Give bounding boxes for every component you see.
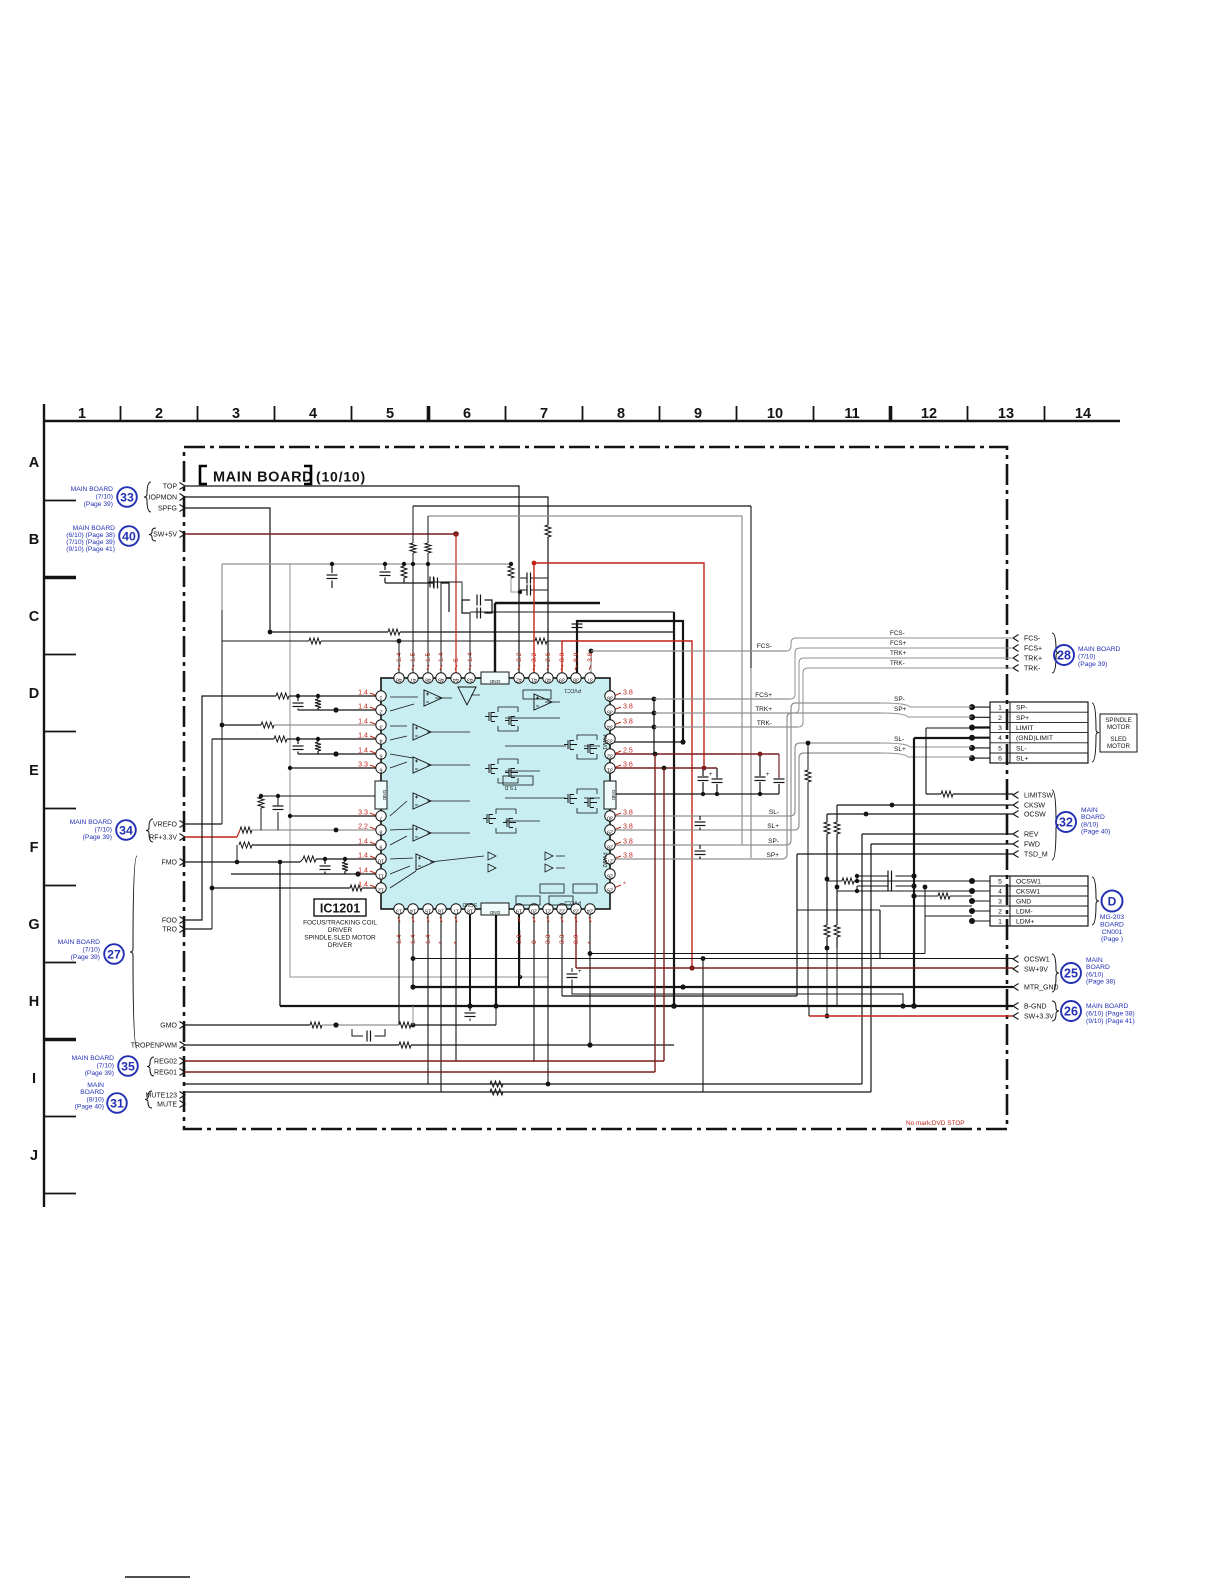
junction pin21/MUTE123 (546, 1082, 551, 1087)
thick gnd limit wire (914, 737, 972, 739)
svg-text:3.8: 3.8 (587, 652, 594, 662)
svg-text:25: 25 (1064, 967, 1078, 981)
node TSD_M (1013, 851, 1019, 858)
LDM+ row wire (925, 915, 972, 917)
IC1201 reference label (314, 899, 366, 916)
group brace for 27 (130, 856, 137, 1048)
svg-text:B-GND: B-GND (1024, 1004, 1047, 1011)
svg-text:40: 40 (122, 529, 136, 543)
svg-text:MAIN: MAIN (1081, 807, 1098, 814)
svg-text:MAIN BOARD: MAIN BOARD (1078, 646, 1121, 653)
wire (400, 631, 674, 633)
svg-text:(9/10) (Page 41): (9/10) (Page 41) (1086, 1018, 1135, 1025)
svg-text:3: 3 (380, 724, 383, 730)
vertical x703 lower (702, 959, 704, 1093)
svg-text:15: 15 (425, 908, 431, 914)
node MTR_GND (1013, 984, 1019, 991)
long bus y506 (413, 505, 751, 507)
svg-text:3.8: 3.8 (623, 689, 633, 697)
svg-text:1.4: 1.4 (396, 652, 403, 662)
svg-text:MTR_GND: MTR_GND (1024, 985, 1059, 992)
svg-text:(9/10) (Page 41): (9/10) (Page 41) (66, 546, 115, 553)
wire (270, 631, 388, 633)
TSD vertical x797 (796, 854, 798, 996)
FWD wire (871, 843, 1013, 845)
svg-text:FMO: FMO (161, 860, 177, 867)
resistor y641 left (309, 638, 321, 644)
node B-GND (1013, 1003, 1019, 1010)
svg-text:21: 21 (545, 908, 551, 914)
svg-text:BOARD: BOARD (1100, 921, 1124, 928)
svg-text:34: 34 (119, 823, 133, 837)
left ruler line (43, 421, 45, 1207)
gnd box bottom drop thick (495, 915, 497, 1006)
svg-text:48: 48 (396, 677, 402, 683)
MG rows wires (856, 876, 858, 881)
svg-text:BOARD: BOARD (80, 1089, 104, 1096)
IC right GND box (604, 781, 616, 809)
ref circle 27 (104, 944, 124, 964)
pin20 drop (533, 914, 535, 1062)
wire IOPMON to pin40 (185, 497, 548, 525)
pin4/5 rc cluster (297, 739, 299, 744)
resistor pin9 (239, 842, 252, 848)
vertical x655 (654, 754, 656, 1072)
svg-text:40: 40 (545, 677, 551, 683)
pin34 wire (610, 726, 654, 728)
svg-text:3.2: 3.2 (531, 652, 538, 662)
red bus pin39 (y641) (562, 641, 692, 968)
IC top GND box (481, 672, 509, 684)
long gray bus y515 (428, 516, 742, 845)
svg-text:*: * (587, 941, 594, 944)
svg-text:SP-: SP- (1016, 705, 1027, 712)
pin22 drop (561, 914, 563, 996)
svg-text:SP+: SP+ (1016, 715, 1029, 722)
svg-text:3: 3 (998, 725, 1002, 732)
svg-text:14: 14 (1075, 406, 1091, 422)
svg-text:SL+: SL+ (1016, 756, 1028, 763)
node OCSW (1013, 811, 1019, 818)
CKSW column to B-GND (836, 948, 838, 1006)
svg-text:11: 11 (844, 406, 859, 422)
svg-text:2: 2 (380, 709, 383, 715)
svg-text:TSD_M: TSD_M (1024, 852, 1048, 859)
gray FCS- run (591, 650, 786, 652)
svg-text:GND: GND (1016, 898, 1031, 905)
svg-text:8.9: 8.9 (573, 652, 580, 662)
svg-text:FCS-: FCS- (890, 630, 905, 637)
maroon pin32 run (610, 753, 779, 755)
transistor pair (568, 740, 577, 750)
svg-text:(8/10): (8/10) (1081, 821, 1098, 828)
svg-text:DRIVER: DRIVER (328, 942, 353, 949)
resistor on SPFG line (388, 629, 400, 635)
svg-text:(6/10) (Page 38): (6/10) (Page 38) (66, 532, 115, 539)
svg-text:1.5: 1.5 (410, 652, 417, 662)
link FMO to pin9 row (236, 845, 238, 862)
svg-text:1.4: 1.4 (358, 732, 368, 740)
svg-text:1.5: 1.5 (425, 652, 432, 662)
node FCS+ (1013, 645, 1019, 652)
MG GND row wire (914, 895, 938, 897)
svg-text:13: 13 (396, 908, 402, 914)
pin13 drop to GMO (398, 914, 400, 1025)
node CKSW (1013, 802, 1019, 809)
thick vertical x914 (913, 738, 915, 1006)
connector MG-203 CN001 table (990, 876, 1088, 926)
wire gray (274, 724, 376, 726)
svg-text:(8/10): (8/10) (87, 1096, 104, 1103)
TROPENPWM wire (185, 1044, 399, 1046)
svg-text:35: 35 (121, 1059, 135, 1073)
cap pair drop (491, 603, 493, 613)
OCSW column to SW+3.3V (826, 948, 828, 1016)
svg-text:LDM-: LDM- (1016, 908, 1033, 915)
FWD vertical x871 (870, 844, 872, 1092)
svg-text:SPINDLE: SPINDLE (1105, 717, 1131, 724)
resistor on x808 (805, 770, 811, 782)
gnd rail from IC right gnd box (616, 793, 779, 795)
svg-text:(7/10): (7/10) (1078, 653, 1095, 660)
svg-text:29: 29 (607, 829, 613, 835)
wire pin38 thick (576, 631, 578, 673)
svg-text:BOARD: BOARD (1081, 814, 1105, 821)
svg-text:C: C (29, 609, 40, 625)
pin36 wire (610, 698, 654, 700)
wire TOP to pin42 (185, 486, 519, 673)
pin21 drop (547, 914, 549, 1084)
IC bottom pins 19-24 (514, 904, 524, 914)
svg-text:GND: GND (610, 790, 616, 801)
IC left GND box (375, 781, 387, 809)
svg-text:FCS-: FCS- (1024, 636, 1041, 643)
ref circle 25 (1061, 963, 1081, 983)
svg-text:TRK-: TRK- (1024, 666, 1041, 673)
column x808 upper (807, 743, 809, 770)
svg-text:MAIN: MAIN (1086, 957, 1103, 964)
svg-text:31: 31 (607, 767, 613, 773)
svg-text:E: E (29, 763, 39, 779)
svg-text:3.8: 3.8 (623, 823, 633, 831)
ref circle 32 (1056, 812, 1076, 832)
MG rows to caps (827, 880, 842, 882)
svg-text:5: 5 (380, 753, 383, 759)
wire SW+5V to pin44 (455, 534, 457, 673)
svg-text:19: 19 (516, 908, 522, 914)
svg-text:3.8: 3.8 (623, 718, 633, 726)
FMO run (185, 861, 237, 863)
column x808 lower (807, 782, 809, 1006)
node TRK- (1013, 665, 1019, 672)
svg-text:TRK-: TRK- (757, 720, 772, 727)
svg-text:3.3: 3.3 (358, 761, 368, 769)
svg-text:1.4: 1.4 (358, 838, 368, 846)
svg-text:2.6: 2.6 (545, 652, 552, 662)
svg-text:24: 24 (587, 908, 593, 914)
svg-text:TRO: TRO (162, 927, 177, 934)
svg-text:No mark:DVD STOP: No mark:DVD STOP (906, 1120, 964, 1127)
svg-text:SLED: SLED (1110, 736, 1127, 743)
red bus upper (y563) (534, 563, 704, 770)
svg-text:FWD: FWD (1024, 842, 1040, 849)
svg-text:VREFO: VREFO (153, 822, 178, 829)
svg-text:*: * (453, 941, 460, 944)
svg-text:J: J (30, 1148, 38, 1164)
svg-text:RF+3.3V: RF+3.3V (149, 835, 177, 842)
SL- gray (610, 815, 790, 817)
svg-text:1.4: 1.4 (358, 867, 368, 875)
svg-text:5: 5 (998, 878, 1002, 885)
svg-text:MAIN BOARD: MAIN BOARD (73, 525, 116, 532)
ref circle 28 (1054, 645, 1074, 665)
FCS- gray from pin37 (590, 651, 592, 673)
gray TRK+ (654, 712, 794, 714)
svg-text:G: G (28, 917, 39, 933)
svg-text:MAIN BOARD: MAIN BOARD (70, 819, 113, 826)
svg-text:MUTE: MUTE (157, 1102, 177, 1109)
svg-text:(7/10): (7/10) (97, 1062, 114, 1069)
bus y641 feeding pin48 (221, 564, 223, 641)
svg-text:3.8: 3.8 (623, 809, 633, 817)
svg-text:27: 27 (107, 947, 121, 961)
svg-text:36: 36 (607, 695, 613, 701)
svg-text:SW+3.3V: SW+3.3V (1024, 1014, 1054, 1021)
svg-text:5: 5 (453, 658, 460, 662)
IC left pins 1-6 (376, 691, 386, 701)
pin8 rc to gnd rail (260, 808, 262, 830)
svg-text:37: 37 (587, 677, 593, 683)
svg-text:1.4: 1.4 (410, 934, 417, 944)
svg-text:GND: GND (381, 790, 387, 801)
svg-text:SP-: SP- (894, 696, 905, 703)
transistor pair (568, 794, 577, 804)
svg-text:(7/10): (7/10) (83, 946, 100, 953)
svg-text:TROPENPWM: TROPENPWM (131, 1043, 177, 1050)
svg-text:3.3: 3.3 (516, 934, 523, 944)
svg-text:DRIVER: DRIVER (328, 927, 353, 934)
svg-text:(GND)LIMIT: (GND)LIMIT (1016, 735, 1053, 742)
svg-text:(Page 39): (Page 39) (84, 501, 113, 508)
thick bus y621 to pin33 (577, 621, 683, 742)
svg-text:PVCC1: PVCC1 (564, 687, 581, 693)
transistor pair (489, 764, 498, 774)
svg-text:MAIN: MAIN (87, 1082, 104, 1089)
stub x880 (879, 910, 881, 958)
svg-text:TRK-: TRK- (890, 660, 905, 667)
svg-text:12: 12 (378, 887, 384, 893)
bypass cap on SW+9V (571, 968, 573, 972)
svg-text:PWM2: PWM2 (601, 853, 607, 868)
schematic frame (dash-dot border) (184, 447, 1007, 1129)
pin6 wire (290, 767, 376, 769)
lead (759, 754, 761, 776)
TRO wire (185, 928, 212, 930)
gray FCS+ (654, 698, 790, 700)
gray stub (221, 564, 223, 610)
FOO wire (185, 696, 276, 920)
svg-text:SPINDLE.SLED MOTOR: SPINDLE.SLED MOTOR (304, 935, 376, 942)
pin10 rc (324, 859, 326, 864)
ref circle 34 (116, 820, 136, 840)
wire (385, 582, 434, 584)
lead (778, 754, 780, 778)
TSD_M wire (797, 853, 1013, 855)
gray enclosure around IC (left/bottom) (290, 564, 548, 977)
svg-text:11: 11 (378, 873, 384, 879)
svg-text:16: 16 (438, 908, 444, 914)
svg-text:LDM+: LDM+ (1016, 918, 1034, 925)
svg-text:MAIN BOARD: MAIN BOARD (1086, 1003, 1129, 1010)
svg-text:1.4: 1.4 (358, 703, 368, 711)
svg-text:6: 6 (463, 406, 471, 422)
MTR_GND wire (413, 986, 1013, 988)
SL+ gray (610, 829, 794, 831)
gray TRK- (654, 726, 798, 728)
svg-text:(6/10): (6/10) (1086, 971, 1103, 978)
svg-text:43: 43 (467, 677, 473, 683)
IC internal op-amps (424, 690, 442, 706)
svg-text:D: D (29, 686, 39, 702)
svg-text:MAIN BOARD: MAIN BOARD (71, 486, 114, 493)
svg-text:28: 28 (1057, 649, 1071, 663)
svg-text:H: H (29, 994, 39, 1010)
gray to pin8 (252, 829, 376, 831)
svg-text:(7/10): (7/10) (95, 826, 112, 833)
IC right pins 30-25 (605, 811, 615, 821)
ref circle 35 (118, 1056, 138, 1076)
svg-text:1.4: 1.4 (425, 934, 432, 944)
svg-text:2.5: 2.5 (623, 747, 633, 755)
junction SW+5V (453, 531, 459, 537)
svg-text:(Page ): (Page ) (1101, 936, 1123, 943)
svg-text:PWM1: PWM1 (601, 735, 607, 750)
svg-text:REG01: REG01 (154, 1070, 177, 1077)
left ruler ticks (44, 500, 76, 502)
pin12 wire (212, 887, 350, 889)
top ruler ticks (120, 406, 122, 421)
wire (222, 724, 261, 726)
node FCS- (to 28) (1013, 635, 1019, 642)
svg-text:1.4: 1.4 (467, 652, 474, 662)
black vertical x654 (653, 699, 655, 754)
svg-text:33: 33 (120, 490, 134, 504)
svg-text:FCS+: FCS+ (890, 640, 907, 647)
svg-text:OCSW: OCSW (1024, 812, 1046, 819)
svg-text:3.3: 3.3 (559, 934, 566, 944)
pin1/2 rc cluster (297, 696, 299, 701)
limit drop (925, 728, 927, 794)
svg-text:(Page 40): (Page 40) (1081, 829, 1110, 836)
svg-text:3.8: 3.8 (623, 703, 633, 711)
connector pin dots (969, 704, 975, 710)
pin17 drop (455, 914, 457, 1061)
B-GND horizontal (280, 1005, 914, 1007)
wire (252, 844, 376, 846)
svg-text:22: 22 (559, 908, 565, 914)
thick gnd feed to IC top (494, 603, 496, 673)
svg-text:35: 35 (607, 709, 613, 715)
svg-text:8.9: 8.9 (573, 934, 580, 944)
wires to spindle connector (881, 703, 972, 707)
svg-text:2: 2 (998, 715, 1002, 722)
capacitor (433, 578, 435, 589)
black vertical x674 (470, 611, 674, 613)
pin45 drop (440, 582, 442, 673)
pin16 drop (440, 914, 442, 1092)
svg-text:3.3: 3.3 (545, 934, 552, 944)
svg-text:5: 5 (386, 406, 394, 422)
pin35 wire (610, 712, 654, 714)
svg-text:7: 7 (380, 815, 383, 821)
svg-text:CKSW1: CKSW1 (1016, 888, 1040, 895)
transistor pair (487, 814, 496, 824)
wire SW+5V (dark red) (185, 533, 456, 535)
REV vertical x862 (861, 834, 863, 1084)
svg-text:1.4: 1.4 (396, 934, 403, 944)
IC internal inverting buffer (458, 687, 476, 705)
REG02 wire (185, 1060, 664, 1062)
wire (547, 537, 549, 673)
ref circle 31 (107, 1093, 127, 1113)
svg-text:20: 20 (531, 908, 537, 914)
svg-text:2: 2 (998, 908, 1002, 915)
svg-text:39: 39 (559, 677, 565, 683)
svg-text:0: 0 (531, 940, 538, 944)
node SW+3.3V (1013, 1013, 1019, 1020)
svg-text:LIMITSW: LIMITSW (1024, 793, 1054, 800)
svg-text:(7/10) (Page 39): (7/10) (Page 39) (66, 539, 115, 546)
ref circle 40 MAIN BOARD pages (119, 526, 139, 546)
cap pair above IC (476, 595, 478, 606)
svg-text:CN001: CN001 (1102, 929, 1123, 936)
vertical x222 long (221, 641, 223, 824)
svg-text:(Page 39): (Page 39) (83, 834, 112, 841)
IC right pins 36-31 (605, 691, 615, 701)
svg-text:OCSW1: OCSW1 (1024, 957, 1050, 964)
resistor pin3 (261, 722, 274, 728)
svg-text:PVCC2: PVCC2 (564, 899, 581, 905)
GMO wire (185, 1024, 310, 1026)
svg-text:*: * (438, 941, 445, 944)
wire pin24 to right (589, 914, 591, 1045)
svg-text:BOARD: BOARD (1086, 964, 1110, 971)
red drop to pin41 (533, 563, 535, 673)
svg-text:SW+5V: SW+5V (153, 532, 177, 539)
svg-text:FOCUS/TRACKING COIL: FOCUS/TRACKING COIL (303, 920, 377, 927)
svg-text:32: 32 (1059, 816, 1073, 830)
svg-text:47: 47 (410, 677, 416, 683)
svg-text:9: 9 (380, 844, 383, 850)
svg-text:TOP: TOP (163, 484, 178, 491)
node OCSW1 (to 25) (1013, 956, 1019, 963)
resistor on IOPMON line (545, 525, 551, 537)
svg-text:38: 38 (573, 677, 579, 683)
svg-text:A: A (29, 455, 40, 471)
svg-text:8.9: 8.9 (559, 652, 566, 662)
svg-text:18: 18 (467, 908, 473, 914)
svg-text:14: 14 (410, 908, 416, 914)
ref circle D MG-203 board (1102, 891, 1123, 912)
LIMITSW run (926, 793, 941, 795)
svg-text:FCS-: FCS- (757, 643, 772, 650)
capacitor pin46-45 (429, 577, 431, 588)
pin4 wire (212, 738, 274, 740)
svg-text:(6/10) (Page 38): (6/10) (Page 38) (1086, 1010, 1135, 1017)
rc pair near x385 (384, 564, 386, 570)
svg-text:3: 3 (232, 406, 240, 422)
svg-text:23: 23 (573, 908, 579, 914)
